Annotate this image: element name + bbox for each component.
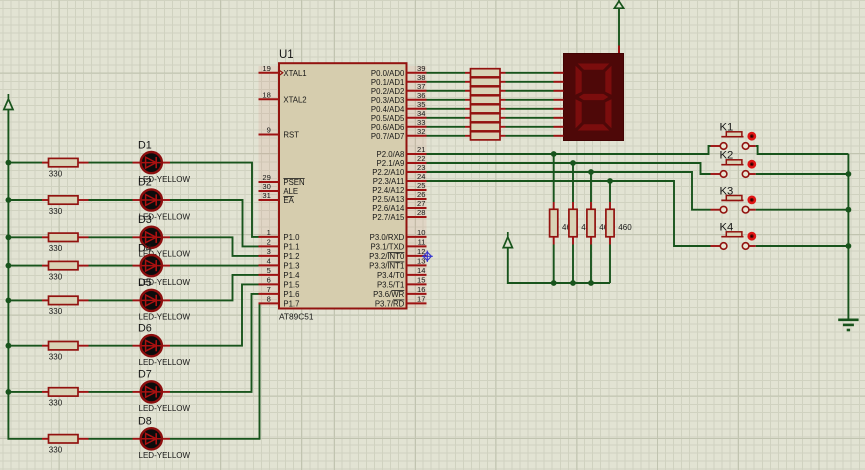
wire pullup R4 top <box>609 181 611 202</box>
svg-text:D8: D8 <box>138 416 152 428</box>
svg-text:330: 330 <box>49 169 63 178</box>
svg-text:28: 28 <box>417 208 425 217</box>
resistor R8 330 <box>42 435 89 455</box>
svg-text:27: 27 <box>417 199 425 208</box>
LED D1 LED-YELLOW <box>133 139 191 184</box>
junction rail/D1 <box>5 160 11 166</box>
svg-text:330: 330 <box>49 307 63 316</box>
wire D4 to pin P1.3 <box>170 265 259 267</box>
pin 37 P0.2/AD2 <box>371 82 427 96</box>
junction rail/K4 <box>846 243 852 249</box>
wire rail to R2 <box>8 199 42 201</box>
wire pullup common rail <box>508 248 610 283</box>
svg-text:P0.7/AD7: P0.7/AD7 <box>371 132 404 141</box>
svg-text:24: 24 <box>417 172 425 181</box>
wire pullup R3 top <box>590 172 592 202</box>
svg-text:D5: D5 <box>138 277 152 289</box>
svg-text:P3.5/T1: P3.5/T1 <box>377 281 404 290</box>
wire D6 to pin P1.5 <box>170 284 259 345</box>
svg-text:31: 31 <box>262 191 270 200</box>
resistor RP4 460 <box>606 202 632 245</box>
pin 21 P2.0/A8 <box>377 145 427 159</box>
resistor R4 330 <box>42 261 89 281</box>
wire left VCC rail <box>8 110 42 439</box>
resistor R6 330 <box>42 342 89 362</box>
junction pullup rail <box>588 280 594 286</box>
pin 22 P2.1/A9 <box>377 154 427 168</box>
junction rail/D2 <box>5 197 11 203</box>
svg-text:8: 8 <box>267 295 271 304</box>
svg-text:AT89C51: AT89C51 <box>279 311 314 321</box>
push button K2 <box>711 150 757 178</box>
junction rail/D6 <box>5 343 11 349</box>
svg-text:D3: D3 <box>138 214 152 226</box>
wire P0.1 to RN2 <box>427 81 466 83</box>
svg-text:PSEN: PSEN <box>283 178 304 187</box>
wire R3 to D3 <box>89 236 133 238</box>
wire D8 to pin P1.7 <box>170 303 260 438</box>
svg-text:P0.4/AD4: P0.4/AD4 <box>371 105 405 114</box>
svg-text:U1: U1 <box>279 49 294 61</box>
svg-text:P2.7/A15: P2.7/A15 <box>372 213 405 222</box>
resistor RN2 (pack) <box>465 78 506 86</box>
pin 18 XTAL2 <box>259 91 307 105</box>
svg-text:P3.0/RXD: P3.0/RXD <box>370 233 405 242</box>
resistor RN7 (pack) <box>465 123 506 131</box>
svg-text:P2.5/A13: P2.5/A13 <box>372 195 404 204</box>
wire RN2 to display pin 2 <box>506 81 554 83</box>
op-amp substitute: microcontroller U1 AT89C51 <box>279 49 407 321</box>
wire D2 to pin P1.1 <box>170 200 259 246</box>
pin 11 P3.1/TXD <box>370 238 426 252</box>
svg-text:5: 5 <box>267 266 271 275</box>
svg-text:P1.4: P1.4 <box>283 271 300 280</box>
push button K1 <box>711 122 757 150</box>
resistor RN8 (pack) <box>465 132 506 140</box>
pin 15 P3.5/T1 <box>377 276 427 290</box>
svg-text:D1: D1 <box>138 139 152 151</box>
wire P2.1 to K2 <box>427 163 711 174</box>
svg-text:11: 11 <box>418 238 426 247</box>
svg-text:P3.4/T0: P3.4/T0 <box>377 271 405 280</box>
svg-text:330: 330 <box>49 272 63 281</box>
svg-text:K4: K4 <box>720 222 734 234</box>
svg-text:19: 19 <box>262 64 270 73</box>
pin 5 P1.4 <box>259 266 301 280</box>
svg-text:XTAL1: XTAL1 <box>283 69 306 78</box>
ground <box>838 320 858 330</box>
pin 35 P0.4/AD4 <box>371 100 427 114</box>
svg-text:LED-YELLOW: LED-YELLOW <box>139 451 191 460</box>
junction rail/K2 <box>846 171 852 177</box>
wire RN8 to display pin 8 <box>506 135 554 137</box>
svg-text:35: 35 <box>417 100 425 109</box>
svg-text:38: 38 <box>417 73 425 82</box>
pin 13 P3.3/INT1 <box>369 257 426 271</box>
svg-text:P3.3/INT1: P3.3/INT1 <box>369 262 404 271</box>
pin 3 P1.2 <box>259 247 300 261</box>
LED D2 LED-YELLOW <box>133 177 191 222</box>
pin 12 P3.2/INT0 <box>369 247 426 261</box>
pin 4 P1.3 <box>259 257 300 271</box>
pin 27 P2.6/A14 <box>372 199 426 213</box>
svg-text:K1: K1 <box>720 122 734 134</box>
wire RN3 to display pin 3 <box>506 90 554 92</box>
pin 2 P1.1 <box>259 238 300 252</box>
pin 30 ALE <box>259 182 299 196</box>
push button K3 <box>711 185 757 213</box>
svg-text:D7: D7 <box>138 369 152 381</box>
wire rail to R1 <box>8 162 42 164</box>
svg-text:P1.2: P1.2 <box>283 252 299 261</box>
junction P2.3/pullup <box>607 178 613 184</box>
wire R7 to D7 <box>89 391 133 393</box>
7-segment display <box>554 46 624 141</box>
pin 1 P1.0 <box>259 228 301 242</box>
LED D5 LED-YELLOW <box>133 277 191 322</box>
wire P0.7 to RN8 <box>427 135 466 137</box>
svg-text:30: 30 <box>262 182 270 191</box>
svg-text:36: 36 <box>417 91 425 100</box>
junction P2.1/pullup <box>570 160 576 166</box>
wire D5 to pin P1.4 <box>170 275 259 301</box>
resistor RN4 (pack) <box>465 96 506 104</box>
wire RN4 to display pin 4 <box>506 99 554 101</box>
wire pullup R2 top <box>572 163 574 202</box>
svg-text:P1.6: P1.6 <box>283 290 299 299</box>
wire rail to R6 <box>8 345 42 347</box>
resistor R7 330 <box>42 388 89 408</box>
wire P2.0 to K1 <box>427 146 711 154</box>
svg-text:P0.3/AD3: P0.3/AD3 <box>371 96 404 105</box>
wire pullup R2 bottom <box>572 245 574 284</box>
pin 33 P0.6/AD6 <box>371 118 427 132</box>
pin 31 EA <box>259 191 295 205</box>
svg-text:P2.4/A12: P2.4/A12 <box>372 186 404 195</box>
wire RN5 to display pin 5 <box>506 108 554 110</box>
wire R2 to D2 <box>89 199 133 201</box>
pin 16 P3.6/WR <box>373 285 426 299</box>
svg-text:2: 2 <box>267 238 271 247</box>
pin 6 P1.5 <box>259 276 301 290</box>
LED D3 LED-YELLOW <box>133 214 191 259</box>
resistor RN3 (pack) <box>465 87 506 95</box>
svg-text:330: 330 <box>49 244 63 253</box>
svg-text:LED-YELLOW: LED-YELLOW <box>139 358 191 367</box>
svg-text:P0.6/AD6: P0.6/AD6 <box>371 123 404 132</box>
wire P2.2 to K3 <box>427 172 711 210</box>
svg-text:K3: K3 <box>720 185 734 197</box>
svg-text:P1.7: P1.7 <box>283 300 299 309</box>
svg-text:P0.5/AD5: P0.5/AD5 <box>371 114 405 123</box>
wire RN7 to display pin 7 <box>506 126 554 128</box>
svg-text:3: 3 <box>267 247 271 256</box>
clock marker XTAL1 <box>279 70 282 75</box>
svg-text:K2: K2 <box>720 150 734 162</box>
junction P2.0/pullup <box>551 151 557 157</box>
wire D1 to pin P1.0 <box>170 163 259 237</box>
pin 19 XTAL1 <box>259 64 307 78</box>
junction P2.2/pullup <box>588 169 594 175</box>
wire rail to R4 <box>8 265 42 267</box>
resistor RP2 460 <box>569 202 595 245</box>
junction rail/D4 <box>5 263 11 269</box>
svg-text:18: 18 <box>262 91 270 100</box>
svg-text:33: 33 <box>417 118 425 127</box>
resistor RP3 460 <box>587 202 613 245</box>
wire P2.3 to K4 <box>427 181 711 246</box>
resistor R1 330 <box>42 158 89 178</box>
svg-text:15: 15 <box>417 276 425 285</box>
svg-text:P1.5: P1.5 <box>283 281 300 290</box>
svg-text:330: 330 <box>49 207 63 216</box>
svg-text:D4: D4 <box>138 242 152 254</box>
wire P0.5 to RN6 <box>427 117 466 119</box>
wire pullup R3 bottom <box>590 245 592 284</box>
pin 34 P0.5/AD5 <box>371 109 427 123</box>
junction rail/D5 <box>5 298 11 304</box>
svg-text:9: 9 <box>267 126 271 135</box>
svg-text:17: 17 <box>417 295 425 304</box>
wire D3 to pin P1.2 <box>170 237 259 256</box>
svg-text:29: 29 <box>262 173 270 182</box>
svg-text:P2.6/A14: P2.6/A14 <box>372 204 405 213</box>
resistor R3 330 <box>42 233 89 253</box>
power symbol VCC left <box>4 94 13 110</box>
svg-text:P1.1: P1.1 <box>283 243 299 252</box>
svg-text:7: 7 <box>267 285 271 294</box>
LED D6 LED-YELLOW <box>133 322 191 367</box>
pin 7 P1.6 <box>259 285 300 299</box>
svg-text:LED-YELLOW: LED-YELLOW <box>139 313 191 322</box>
svg-text:P2.1/A9: P2.1/A9 <box>377 159 405 168</box>
junction pullup rail <box>570 280 576 286</box>
svg-text:ALE: ALE <box>283 187 298 196</box>
svg-text:P3.6/WR: P3.6/WR <box>373 290 405 299</box>
LED D8 LED-YELLOW <box>133 416 191 461</box>
svg-text:23: 23 <box>417 163 425 172</box>
wire rail to R5 <box>8 299 42 301</box>
wire R5 to D5 <box>89 299 133 301</box>
svg-text:21: 21 <box>417 145 425 154</box>
svg-text:EA: EA <box>283 196 294 205</box>
wire P0.0 to RN1 <box>427 72 466 74</box>
svg-text:P2.3/A11: P2.3/A11 <box>373 177 405 186</box>
pin 10 P3.0/RXD <box>370 228 427 242</box>
svg-text:16: 16 <box>417 285 425 294</box>
wire ground rail <box>847 154 849 320</box>
pin 17 P3.7/RD <box>375 295 427 309</box>
wire R4 to D4 <box>89 265 133 267</box>
LED D4 LED-YELLOW <box>133 242 191 287</box>
pin 24 P2.3/A11 <box>373 172 427 186</box>
node marker (blue) near pin 12 <box>422 251 433 262</box>
junction pullup rail <box>551 280 557 286</box>
wire P0.6 to RN7 <box>427 126 466 128</box>
wire K1 to ground rail <box>756 146 849 154</box>
wire P0.3 to RN4 <box>427 99 466 101</box>
svg-text:14: 14 <box>417 266 425 275</box>
pin 14 P3.4/T0 <box>377 266 427 280</box>
svg-text:330: 330 <box>49 446 63 455</box>
svg-text:P2.0/A8: P2.0/A8 <box>377 150 405 159</box>
wire P0.4 to RN5 <box>427 108 466 110</box>
svg-text:460: 460 <box>618 223 632 232</box>
wire rail to R3 <box>8 236 42 238</box>
junction rail/K3 <box>846 207 852 213</box>
svg-text:RST: RST <box>283 131 299 140</box>
wire pullup R4 bottom <box>609 245 611 284</box>
wire VCC to display common <box>618 8 620 45</box>
power symbol VCC pullups <box>503 232 512 248</box>
wire RN6 to display pin 6 <box>506 117 554 119</box>
pin 8 P1.7 <box>259 295 300 309</box>
svg-text:D6: D6 <box>138 322 152 334</box>
wire R8 to D8 <box>89 438 133 440</box>
pin 25 P2.4/A12 <box>372 181 426 195</box>
wire R1 to D1 <box>89 162 133 164</box>
pin 39 P0.0/AD0 <box>371 64 427 78</box>
wire pullup R1 bottom <box>553 245 555 284</box>
svg-text:P2.2/A10: P2.2/A10 <box>372 168 405 177</box>
resistor R5 330 <box>42 296 89 316</box>
svg-text:XTAL2: XTAL2 <box>283 95 306 104</box>
pin 29 PSEN <box>259 173 305 187</box>
resistor RN5 (pack) <box>465 105 506 113</box>
svg-text:D2: D2 <box>138 177 152 189</box>
wire K4 to ground rail <box>756 245 849 247</box>
pin 23 P2.2/A10 <box>372 163 426 177</box>
svg-text:34: 34 <box>417 109 425 118</box>
pin 36 P0.3/AD3 <box>371 91 427 105</box>
svg-text:P1.0: P1.0 <box>283 233 300 242</box>
svg-text:P0.0/AD0: P0.0/AD0 <box>371 69 405 78</box>
svg-text:P0.1/AD1: P0.1/AD1 <box>371 78 404 87</box>
svg-text:10: 10 <box>417 228 425 237</box>
pin 28 P2.7/A15 <box>372 208 426 222</box>
resistor RN1 (pack) <box>465 69 506 77</box>
svg-text:P3.1/TXD: P3.1/TXD <box>370 243 404 252</box>
svg-text:32: 32 <box>417 127 425 136</box>
wire RN1 to display pin 1 <box>506 72 554 74</box>
wire rail to R7 <box>8 391 42 393</box>
svg-text:25: 25 <box>417 181 425 190</box>
svg-text:330: 330 <box>49 353 63 362</box>
resistor R2 330 <box>42 196 89 216</box>
wire K3 to ground rail <box>756 209 849 211</box>
LED D7 LED-YELLOW <box>133 369 191 414</box>
svg-text:4: 4 <box>267 257 271 266</box>
svg-text:LED-YELLOW: LED-YELLOW <box>139 404 191 413</box>
resistor RP1 460 <box>550 202 576 245</box>
wire D7 to pin P1.6 <box>170 294 259 392</box>
svg-text:6: 6 <box>267 276 271 285</box>
pin 26 P2.5/A13 <box>372 190 426 204</box>
junction rail/D3 <box>5 234 11 240</box>
svg-text:P0.2/AD2: P0.2/AD2 <box>371 87 404 96</box>
svg-text:1: 1 <box>267 228 271 237</box>
svg-text:22: 22 <box>417 154 425 163</box>
pin 9 RST <box>259 126 300 140</box>
pin 38 P0.1/AD1 <box>371 73 427 87</box>
svg-text:P3.7/RD: P3.7/RD <box>375 300 405 309</box>
push button K4 <box>711 222 757 250</box>
svg-text:37: 37 <box>417 82 425 91</box>
wire K2 to ground rail <box>756 173 849 175</box>
junction rail/D7 <box>5 389 11 395</box>
svg-text:26: 26 <box>417 190 425 199</box>
pin 32 P0.7/AD7 <box>371 127 427 141</box>
wire R6 to D6 <box>89 345 133 347</box>
power symbol VCC display <box>614 0 623 8</box>
wire pullup R1 top <box>553 154 555 202</box>
resistor RN6 (pack) <box>465 114 506 122</box>
svg-text:330: 330 <box>49 399 63 408</box>
svg-text:P1.3: P1.3 <box>283 262 299 271</box>
svg-text:39: 39 <box>417 64 425 73</box>
wire P0.2 to RN3 <box>427 90 466 92</box>
svg-text:P3.2/INT0: P3.2/INT0 <box>369 252 405 261</box>
